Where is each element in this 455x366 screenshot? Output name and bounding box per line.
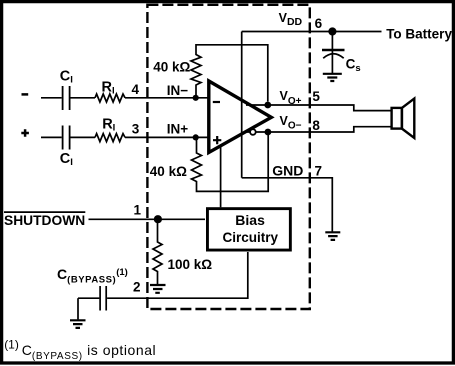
- capacitor CI (top): [63, 86, 70, 110]
- wire bypass (pin 2) to bias: [107, 252, 248, 298]
- capacitor CI (bottom): [63, 126, 70, 150]
- resistor RI (top): [95, 94, 125, 102]
- wire bypass left: [78, 297, 99, 299]
- svg-text:40 kΩ: 40 kΩ: [150, 164, 187, 179]
- svg-text:7: 7: [315, 163, 323, 178]
- op-amp minus sign: [213, 101, 220, 103]
- wire VO- (pin 8) to speaker: [244, 127, 392, 132]
- resistor RI (bottom): [95, 134, 125, 142]
- inversion bubble: [250, 129, 256, 135]
- label SHUTDOWN with overline: [4, 211, 85, 213]
- wire VDD to battery: [242, 31, 382, 33]
- node VO+ junction dot: [264, 102, 271, 109]
- svg-text:(1): (1): [4, 338, 19, 352]
- wire GND (pin 7): [242, 178, 333, 232]
- capacitor CS: [322, 49, 345, 51]
- wire bypass to ground: [77, 298, 79, 319]
- svg-text:Circuitry: Circuitry: [223, 230, 279, 245]
- node IN- junction dot: [193, 95, 199, 101]
- svg-text:2: 2: [133, 279, 141, 294]
- wire CI to RI (top): [71, 97, 96, 99]
- resistor 40 kOhm (top feedback) with wire to VO+: [191, 45, 268, 102]
- capacitor CS lead: [331, 32, 333, 74]
- wire RI to op-amp IN+ (pin 3): [125, 136, 208, 138]
- ground (GND pin): [325, 232, 340, 240]
- plus input terminal: [21, 129, 29, 136]
- wire op-amp to bias circuitry: [220, 146, 222, 207]
- node VO- junction dot: [265, 129, 272, 136]
- svg-text:40 kΩ: 40 kΩ: [153, 59, 190, 74]
- svg-text:SHUTDOWN: SHUTDOWN: [4, 213, 85, 228]
- svg-text:IN+: IN+: [167, 122, 189, 137]
- ground (CS): [323, 74, 342, 81]
- svg-text:3: 3: [132, 121, 140, 136]
- capacitor C(BYPASS): [100, 286, 106, 311]
- svg-text:IN−: IN−: [167, 83, 189, 98]
- resistor 40 kOhm (bottom feedback) with wire to VO-: [192, 132, 269, 191]
- resistor 100 kOhm: [153, 219, 162, 284]
- wire RI to op-amp IN- (pin 4): [125, 97, 208, 99]
- wire plus terminal to CI: [41, 136, 62, 138]
- speaker: [392, 99, 415, 139]
- wire CI to RI (bottom): [71, 136, 96, 138]
- svg-text:To Battery: To Battery: [386, 26, 452, 41]
- svg-text:Bias: Bias: [235, 212, 265, 228]
- svg-text:GND: GND: [272, 162, 303, 178]
- VDD rail wire (pin 6 through amp to GND): [241, 32, 243, 178]
- op-amp plus sign: [213, 136, 221, 144]
- ground (C BYPASS): [70, 320, 86, 328]
- node IN+ junction dot: [193, 134, 199, 140]
- svg-text:8: 8: [312, 118, 320, 133]
- wire SHUTDOWN (pin 1) to bias: [89, 218, 206, 220]
- op-amp triangle: [209, 81, 271, 153]
- node battery junction dot: [328, 27, 336, 35]
- minus input terminal: [22, 93, 29, 96]
- svg-text:100 kΩ: 100 kΩ: [168, 257, 213, 272]
- IC boundary dashed box: [147, 5, 309, 309]
- svg-text:5: 5: [312, 89, 320, 104]
- svg-text:1: 1: [134, 202, 142, 217]
- ground (100 kOhm): [150, 285, 166, 293]
- svg-text:4: 4: [132, 82, 140, 97]
- wire VO+ (pin 5) to speaker: [246, 105, 392, 111]
- bias circuitry box: [207, 209, 290, 250]
- node shutdown junction dot: [154, 215, 162, 223]
- svg-text:6: 6: [315, 16, 323, 31]
- wire minus terminal to CI: [41, 97, 62, 99]
